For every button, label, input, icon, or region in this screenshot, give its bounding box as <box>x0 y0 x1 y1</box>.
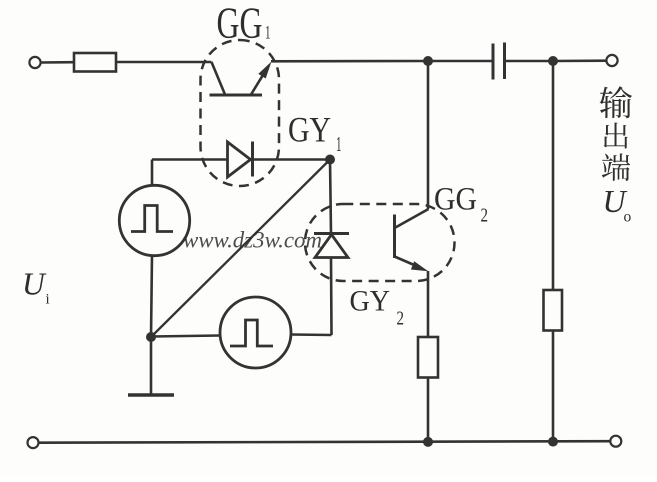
wire: GY1 to node D <box>253 158 331 161</box>
node A (top, x=428) <box>423 56 433 66</box>
wire: node A to capacitor <box>428 60 492 63</box>
input terminal (top left) <box>29 57 40 68</box>
wire: GG1 to node A <box>271 60 428 63</box>
resistor R3 <box>544 290 563 331</box>
wire: capacitor to node B <box>506 60 553 63</box>
node C (junction x=151,y=337) <box>146 332 156 342</box>
svg-text:2: 2 <box>397 308 405 330</box>
node B (top, x=553) <box>548 56 558 66</box>
svg-text:www.dz3w.com: www.dz3w.com <box>183 228 322 253</box>
svg-text:2: 2 <box>481 205 489 227</box>
svg-text:1: 1 <box>265 23 271 44</box>
transistor GG1 (dashed enclosure) <box>201 40 280 186</box>
wire: R2 to node E <box>427 378 430 443</box>
node E (bottom, x=428) <box>423 437 433 447</box>
wire: node C to pulse source P2 <box>151 336 220 337</box>
pulse source P2 <box>220 297 291 368</box>
wire: node D down to GY2 <box>330 160 331 235</box>
transistor GG2 symbol <box>395 209 429 271</box>
label: output terminal Chinese text <box>600 86 632 181</box>
pulse source P1 <box>119 185 189 255</box>
resistor R2 <box>418 337 438 378</box>
wire: P2 to GY2 branch corner <box>291 333 332 336</box>
capacitor C1 <box>493 43 505 80</box>
wire: GY1 line corner down to pulse source P1 <box>151 160 154 187</box>
node D (x=330,y=159.5) <box>325 155 335 165</box>
ground <box>128 337 174 395</box>
wire: resistor to GG1 emitter lead <box>116 61 212 64</box>
wire: R3 to node F <box>552 331 555 442</box>
wire: input terminal to resistor <box>41 61 75 64</box>
wire: bottom rail <box>39 441 611 443</box>
bottom-right terminal <box>610 436 621 447</box>
node F (bottom, x=553) <box>548 437 558 447</box>
svg-text:U: U <box>22 267 47 302</box>
wire: GG2 emitter down to resistor R2 <box>427 271 430 337</box>
svg-text:GY: GY <box>288 109 331 149</box>
svg-text:GG: GG <box>217 0 263 48</box>
wire: node A down to GG2 collector <box>427 61 430 209</box>
transistor GG1 symbol <box>210 62 272 96</box>
wire: node B to output terminal <box>553 59 607 62</box>
wire: diagonal node C to node D <box>151 160 330 338</box>
output terminal (top right) <box>606 55 617 66</box>
svg-text:GG: GG <box>434 182 477 218</box>
bottom-left terminal <box>28 437 39 448</box>
wire: GY2 to bottom corner of inner loop <box>330 258 333 336</box>
svg-text:o: o <box>624 209 632 226</box>
transistor GG2 (dashed enclosure) <box>305 204 455 281</box>
svg-text:1: 1 <box>336 132 342 156</box>
wire: GY1 line left segment <box>152 158 227 161</box>
diode GY1 <box>228 142 253 178</box>
wire: P1 to node C <box>151 256 152 338</box>
diode GY2 <box>314 234 349 258</box>
wire: node B down to resistor R3 <box>552 61 555 290</box>
svg-text:i: i <box>46 292 50 308</box>
svg-text:GY: GY <box>350 285 391 317</box>
resistor (input series) <box>74 53 116 72</box>
